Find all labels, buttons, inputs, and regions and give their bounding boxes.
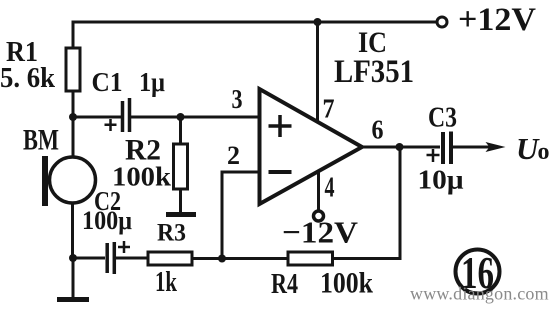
svg-text:C3: C3 [428, 102, 457, 134]
svg-text:6: 6 [372, 115, 384, 145]
svg-text:10μ: 10μ [418, 165, 464, 195]
svg-text:4: 4 [325, 173, 335, 204]
svg-text:www.diangon.com: www.diangon.com [410, 284, 549, 304]
svg-text:BM: BM [23, 124, 59, 157]
svg-text:100μ: 100μ [82, 206, 132, 235]
svg-text:1k: 1k [155, 267, 177, 298]
svg-text:+12V: +12V [458, 2, 536, 38]
svg-text:C1: C1 [92, 67, 123, 97]
svg-text:3: 3 [232, 84, 243, 114]
svg-text:U: U [516, 131, 540, 166]
svg-text:R4: R4 [271, 268, 298, 300]
svg-text:−12V: −12V [282, 215, 359, 250]
svg-text:R3: R3 [157, 220, 186, 247]
svg-text:2: 2 [227, 141, 240, 170]
svg-text:LF351: LF351 [334, 54, 414, 90]
svg-text:5. 6k: 5. 6k [0, 63, 55, 94]
svg-text:o: o [538, 139, 550, 165]
svg-text:100k: 100k [320, 267, 373, 300]
svg-text:7: 7 [323, 94, 335, 124]
svg-text:1μ: 1μ [139, 67, 165, 97]
